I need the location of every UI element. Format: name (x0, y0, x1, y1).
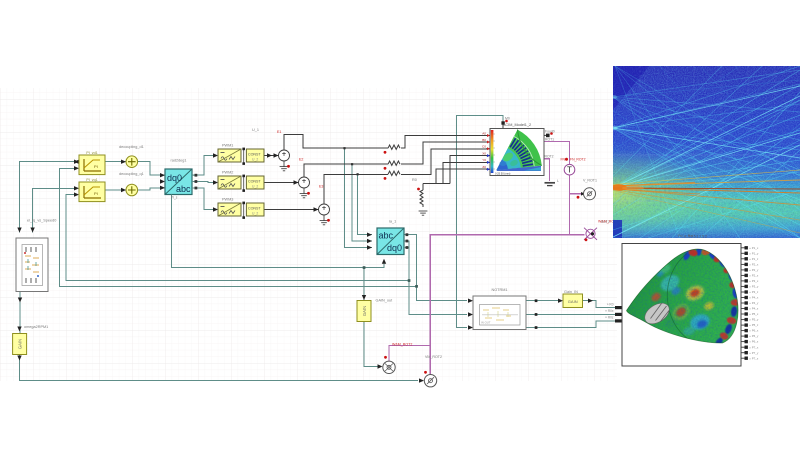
svg-text:NOTRM1: NOTRM1 (491, 288, 507, 292)
svg-text:» P7_z: » P7_z (749, 356, 759, 360)
modal pattern blobs (650, 262, 715, 336)
wire dq0 out a to PWM1 (192, 156, 213, 176)
rotational damper W&M_ROT2 (584, 220, 618, 242)
svg-text:» P1_y: » P1_y (749, 251, 759, 255)
probe dots red (287, 151, 420, 222)
transform block dq0/abc (165, 169, 197, 200)
wire abc out2 down to NOTRM1 in2 (404, 241, 467, 315)
svg-text:E3: E3 (319, 185, 323, 189)
embedded plot: modal scatter map top right (601, 60, 800, 239)
source E1 (279, 150, 290, 161)
svg-text:» P2_y: » P2_y (749, 268, 759, 272)
svg-text:M0: M0 (505, 117, 510, 121)
svg-text:» P7_y: » P7_y (749, 351, 759, 355)
svg-text:FN_ROT2: FN_ROT2 (570, 158, 586, 162)
svg-text:U_2: U_2 (252, 185, 258, 189)
svg-text:» P4_z: » P4_z (749, 307, 759, 311)
wire CONST1 out to E1 (264, 155, 279, 157)
svg-text:A0: A0 (482, 131, 486, 135)
wire CONST2 out to E2 (264, 182, 299, 184)
svg-text:GAIN_out: GAIN_out (376, 298, 394, 302)
svg-text:PI_vd1: PI_vd1 (86, 151, 97, 155)
svg-text:R0: R0 (412, 178, 417, 182)
svg-text:PI: PI (94, 164, 98, 169)
fixed mechanical reference at ROT2 (545, 183, 556, 186)
sensor W&M_ROT2 lower (383, 343, 413, 374)
wire tap phase A to abc in3 (345, 148, 373, 247)
wire motor pin X0 to R0 node (450, 156, 488, 184)
wire PI_vq1 out to sum decoupling_q1 (105, 189, 126, 191)
svg-text:Z0: Z0 (482, 165, 486, 169)
resistor RA (388, 145, 400, 149)
svg-text:ROT1: ROT1 (545, 137, 554, 141)
svg-text:» R0x: » R0x (605, 309, 614, 313)
wire E1 to resistor RA to motor pin A0 (284, 134, 488, 149)
resistor RC (388, 171, 400, 175)
summer decoupling_d1 (126, 156, 138, 168)
svg-text:Psi_q_Rot: Psi_q_Rot (678, 234, 693, 238)
svg-text:» R0z: » R0z (605, 316, 614, 320)
svg-text:» R0: » R0 (607, 302, 614, 306)
constant block CONST2 (246, 176, 264, 189)
svg-text:E2: E2 (299, 158, 303, 162)
svg-text:C0: C0 (482, 145, 486, 149)
svg-text:E1: E1 (277, 130, 281, 134)
svg-text:dq0: dq0 (387, 243, 402, 253)
wire E2 to resistor RB to motor pin B0 (304, 142, 488, 177)
svg-text:CONST: CONST (248, 153, 261, 157)
torque source T (560, 158, 585, 175)
ground below E2 (300, 188, 309, 198)
svg-text:» P2_x: » P2_x (749, 263, 759, 267)
speckle overlays (620, 242, 742, 367)
wire mechanical ROT1 from motor to torque source T (544, 142, 570, 165)
svg-text:V_ROT1: V_ROT1 (583, 179, 597, 183)
wire R0 node bus (423, 184, 450, 191)
svg-text:omega2RPM1: omega2RPM1 (24, 325, 48, 329)
svg-text:FN: FN (560, 158, 565, 162)
wire mechanical ROT2 from motor to fixed reference (544, 159, 550, 181)
source E2 (299, 177, 310, 188)
svg-text:» P5_z: » P5_z (749, 323, 759, 327)
svg-text:ROT2: ROT2 (545, 155, 554, 159)
svg-text:PI_vq1: PI_vq1 (86, 178, 97, 182)
ground below E3 (320, 215, 329, 225)
svg-text:PWM1: PWM1 (222, 144, 233, 148)
wire feedback q to PI_vq1 in2 (66, 195, 409, 281)
wire motor pin Z0 to R0 node (436, 169, 488, 183)
wire GAIN_out to sensor W (364, 322, 378, 367)
wire sum d1 to dq0 in1 (138, 162, 166, 176)
wire motor top pin M0 to NOTRM1 in3 (457, 115, 503, 327)
svg-text:IN OUT: IN OUT (481, 321, 491, 325)
svg-text:» P4_x: » P4_x (749, 296, 759, 300)
gray hub patch (641, 299, 673, 328)
svg-text:ia_1: ia_1 (389, 219, 396, 223)
svg-text:dq0: dq0 (167, 173, 182, 183)
svg-text:decoupling_q1: decoupling_q1 (119, 172, 144, 176)
subsystem el_fq_vs_Speed0 (16, 238, 48, 292)
embedded 3D FEM structural block bottom right (620, 242, 759, 367)
constant block CONST3 (246, 203, 264, 216)
wire NOTRM1 out2 to FEM pin2 (526, 313, 615, 315)
wire mechanical stub W sensor to bus (389, 345, 430, 361)
svg-text:U_2: U_2 (252, 158, 258, 162)
motor top pin M0 (501, 117, 509, 129)
PI controller PI_vd1 (79, 155, 105, 175)
svg-text:Y0: Y0 (482, 158, 486, 162)
node PWM1-CONST1 (242, 148, 245, 165)
wire mechanical shaft from T down to damper node (569, 175, 571, 235)
ground below R0 (419, 211, 428, 215)
wire E3 to resistor RC to motor pin C0 (324, 149, 488, 204)
transform block abc/dq0 (377, 228, 409, 255)
wire sum q1 to dq0 in3 (138, 188, 166, 190)
wire dq0 out b to PWM2 (192, 182, 213, 183)
FEM motor block ACIM_Model1_2 (490, 129, 544, 176)
wire PI_vd1 out to sum decoupling_d1 (105, 161, 126, 163)
svg-text:B0: B0 (482, 138, 486, 142)
svg-text:abc: abc (176, 184, 191, 194)
wire mechanical stub to V_ROT1 sensor (570, 193, 582, 195)
motor left pins A0 B0 C0 X0 Y0 Z0 (482, 131, 490, 170)
source E3 (319, 204, 330, 215)
svg-text:PWM2: PWM2 (222, 171, 233, 175)
svg-text:» P6_x: » P6_x (749, 329, 759, 333)
wire Gain_IN out to FEM pin1 (583, 301, 616, 308)
wire NOTRM1 out3 to FEM pin3 (526, 321, 615, 328)
node PWM3-CONST3 (242, 202, 245, 219)
wire motor pin Y0 to R0 node (443, 162, 488, 183)
summer decoupling_q1 (126, 184, 138, 196)
wire w_ref to PI_vd1 in1 and subsystem in1 (20, 162, 75, 233)
gain Gain_IN (563, 294, 583, 308)
wire feedback d to PI_vd1 in2 (60, 168, 417, 286)
svg-text:» P7_x: » P7_x (749, 345, 759, 349)
wire abc out1 down to NOTRM1 in1 (404, 235, 467, 301)
svg-text:Foud0: Foud0 (545, 130, 555, 134)
wire to PI_vq1 in1 and subsystem in2 (33, 188, 74, 232)
junction dots (343, 147, 537, 329)
wire omega2RPM1 to VM_ROT2 (20, 355, 419, 381)
svg-text:» P3_z: » P3_z (749, 290, 759, 294)
wire tap phase C to abc in1 (358, 174, 373, 234)
cone outline (627, 249, 739, 343)
svg-text:CONST: CONST (248, 180, 261, 184)
svg-text:abc: abc (379, 231, 394, 241)
svg-text:GAIN: GAIN (17, 339, 22, 349)
wire CONST3 out to E3 (264, 209, 319, 211)
ground below E1 (280, 161, 289, 171)
sensor V_ROT1 (577, 179, 597, 200)
svg-text:» P3_x: » P3_x (749, 279, 759, 283)
gain GAIN_out (357, 301, 371, 322)
svg-text:T: T (567, 166, 572, 175)
PI controller PI_vq1 (79, 182, 105, 202)
PWM block PWM1 (218, 149, 241, 162)
svg-text:PWM3: PWM3 (222, 198, 233, 202)
svg-text:» P1_x: » P1_x (749, 246, 759, 250)
svg-text:VM_ROT2: VM_ROT2 (425, 355, 442, 359)
FEM input pins lower-right block (605, 302, 622, 322)
gain omega2RPM1 (13, 334, 27, 355)
wire subsystem out to omega2RPM1 gain (19, 292, 21, 334)
PWM block PWM3 (218, 203, 241, 216)
svg-text:» P4_y: » P4_y (749, 301, 759, 305)
svg-text:GAIN: GAIN (362, 306, 367, 316)
resistor RB (388, 161, 400, 165)
svg-text:ROT2: ROT2 (601, 220, 610, 224)
svg-text:decoupling_d1: decoupling_d1 (119, 145, 144, 149)
svg-text:PI_s: PI_s (171, 195, 178, 199)
wire NOTRM1 out1 to Gain_IN (526, 300, 558, 302)
constant block CONST1 (246, 149, 264, 162)
svg-text:» P1_z: » P1_z (749, 257, 759, 261)
pin column (741, 246, 759, 250)
wire mechanical bus to VM_ROT2 (430, 235, 584, 374)
cone body (627, 249, 739, 343)
svg-text:» P6_z: » P6_z (749, 340, 759, 344)
node PWM2-CONST2 (242, 175, 245, 192)
svg-text:U_2: U_2 (252, 212, 258, 216)
svg-text:W&M_ROT2: W&M_ROT2 (392, 343, 412, 347)
rim band (696, 249, 738, 343)
wire tap phase B to abc in2 (352, 164, 372, 241)
PWM block PWM2 (218, 176, 241, 189)
motor right pin Foud0 (544, 130, 555, 138)
arrowheads control section (17, 153, 593, 382)
svg-text:el_fq_vs_Speed0: el_fq_vs_Speed0 (27, 219, 56, 223)
wire theta branch down to GAIN_out (363, 268, 365, 301)
svg-text:GAIN: GAIN (568, 299, 578, 304)
sensor VM_ROT2 (424, 355, 442, 387)
ring seam (667, 254, 689, 340)
svg-text:» P3_y: » P3_y (749, 285, 759, 289)
subsystem NOTRM1 (473, 296, 526, 330)
svg-text:» P5_y: » P5_y (749, 318, 759, 322)
svg-text:X0: X0 (482, 151, 486, 155)
svg-text:ACIM_Model1_2: ACIM_Model1_2 (503, 123, 531, 127)
svg-text:» P5_x: » P5_x (749, 312, 759, 316)
wire dq0 out c to PWM3 (192, 188, 213, 210)
svg-text:CONST: CONST (248, 207, 261, 211)
svg-text:Gain_IN: Gain_IN (564, 290, 578, 294)
svg-text:PI: PI (94, 191, 98, 196)
svg-text:» P6_y: » P6_y (749, 334, 759, 338)
svg-text:0 25 50 (mm): 0 25 50 (mm) (495, 172, 511, 176)
wire theta net from dq0 bottom to abc block and GAIN_out (172, 200, 385, 268)
svg-text:rad2deg1: rad2deg1 (170, 159, 186, 163)
resistor R0 (420, 190, 423, 207)
svg-text:» P2_z: » P2_z (749, 274, 759, 278)
svg-text:U_1: U_1 (252, 128, 259, 132)
svg-text:L: L (557, 179, 559, 183)
